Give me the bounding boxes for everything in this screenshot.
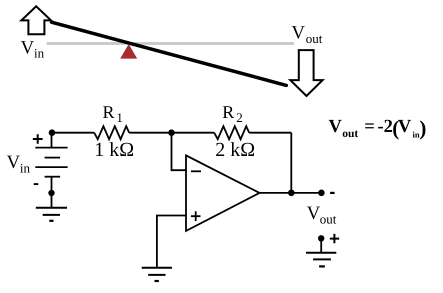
svg-text:out: out [342,128,358,140]
svg-text:2: 2 [236,110,243,125]
lever rest line (gray) [47,42,294,45]
node: inverting input junction [168,129,175,136]
label + (output ground polarity) [330,234,339,243]
svg-text:V: V [329,117,343,137]
svg-text:in: in [20,160,31,175]
wire: output ground stub [320,238,322,252]
label - (battery) [34,183,39,185]
fulcrum [120,44,137,59]
svg-text:out: out [306,31,323,46]
ground (noninverting input) [142,267,172,269]
op-amp inverting input symbol (-) [191,170,201,172]
node: output terminal [318,190,325,197]
battery plate short 1 [45,157,61,159]
wire: feedback vertical [290,133,292,193]
battery plate short 2 [45,176,61,178]
svg-text:V: V [7,152,21,173]
svg-text:V: V [21,38,35,59]
ground (source) [36,207,67,209]
battery plate long 1 [35,147,67,149]
svg-text:out: out [320,211,337,226]
svg-text:=: = [364,117,375,137]
svg-text:V: V [291,23,305,44]
input arrow (up) [21,6,51,34]
battery bottom stub [51,177,53,193]
wire: source positive to R1 [52,132,95,134]
wire: R2 to feedback corner [249,132,291,134]
svg-text:1 kΩ: 1 kΩ [94,139,134,161]
label + (battery) [33,134,43,144]
node: output ground terminal [318,235,324,241]
battery V (Vin source): top stub [51,133,53,148]
svg-text:1: 1 [116,110,123,125]
op-amp noninverting input symbol (+) [191,211,201,221]
svg-text:R: R [222,102,234,122]
svg-text:): ) [419,116,426,140]
battery plate long 2 [35,166,67,168]
wire: battery bottom to ground [51,193,53,208]
resistor R1 [94,126,129,139]
output arrow (down) [290,50,322,96]
lever beam (black, tilted) [52,22,287,85]
svg-text:in: in [34,46,45,61]
label - (output polarity) [330,192,335,194]
wire: R1 to inverting junction [129,132,171,134]
node: source top [49,129,56,136]
wire: junction to R2 [172,132,215,134]
wire: junction down to inverting input [172,133,187,171]
op-amp U1 [186,155,260,231]
node: battery bottom [48,190,54,196]
svg-text:2 kΩ: 2 kΩ [215,139,255,161]
wire: op-amp output [260,192,322,194]
resistor R2 [214,126,249,139]
svg-text:V: V [398,117,412,137]
node: feedback junction [288,190,295,197]
wire: noninverting input to ground [157,216,187,268]
svg-text:R: R [103,102,115,122]
svg-text:-2: -2 [378,117,393,137]
ground (output reference) [306,252,336,254]
svg-text:V: V [307,203,321,224]
